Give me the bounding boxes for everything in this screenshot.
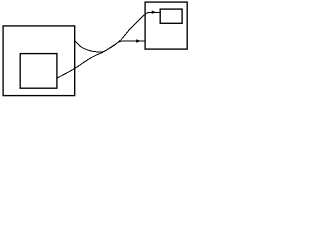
arrowhead B <box>152 11 157 14</box>
inner box right <box>160 9 182 23</box>
arrowhead A <box>136 39 141 42</box>
inner box left <box>20 54 57 89</box>
outer box right <box>145 2 187 49</box>
wire connector B: inner-left box to inner-right box <box>57 12 160 78</box>
wire connector A: outer-left box to outer-right box <box>75 41 145 53</box>
outer box left <box>3 26 75 96</box>
